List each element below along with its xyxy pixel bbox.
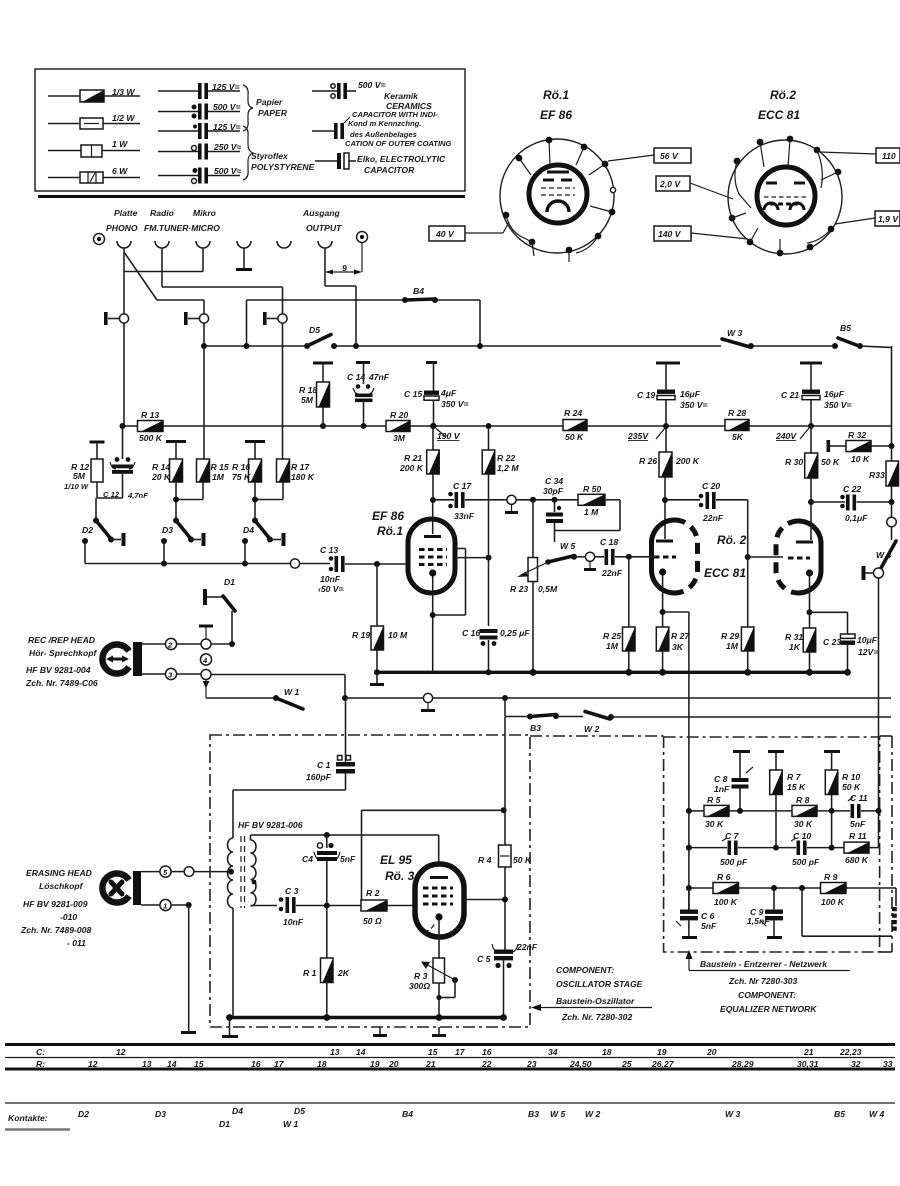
svg-text:Radio: Radio bbox=[150, 208, 174, 218]
svg-text:6 W: 6 W bbox=[112, 166, 128, 176]
svg-text:15: 15 bbox=[194, 1059, 204, 1069]
svg-text:Kontakte:: Kontakte: bbox=[8, 1113, 48, 1123]
svg-text:100 K: 100 K bbox=[821, 897, 845, 907]
svg-text:OUTPUT: OUTPUT bbox=[306, 223, 342, 233]
svg-text:C4: C4 bbox=[302, 854, 313, 864]
svg-text:R 1: R 1 bbox=[303, 968, 317, 978]
svg-text:22: 22 bbox=[481, 1059, 492, 1069]
svg-text:EF 86: EF 86 bbox=[372, 509, 404, 523]
svg-text:R 16: R 16 bbox=[232, 462, 250, 472]
svg-text:D4: D4 bbox=[232, 1106, 243, 1116]
svg-text:16: 16 bbox=[482, 1047, 492, 1057]
svg-text:140 V: 140 V bbox=[658, 229, 682, 239]
svg-text:C 15: C 15 bbox=[404, 389, 422, 399]
svg-text:OSCILLATOR STAGE: OSCILLATOR STAGE bbox=[556, 979, 643, 989]
svg-text:B4: B4 bbox=[402, 1109, 413, 1119]
svg-text:R 28: R 28 bbox=[728, 408, 746, 418]
svg-text:C 22: C 22 bbox=[843, 484, 861, 494]
svg-text:C 16: C 16 bbox=[462, 628, 480, 638]
svg-text:C 14: C 14 bbox=[347, 372, 365, 382]
svg-text:23: 23 bbox=[526, 1059, 537, 1069]
svg-text:22nF: 22nF bbox=[702, 513, 724, 523]
svg-text:C 1: C 1 bbox=[317, 760, 331, 770]
svg-text:20: 20 bbox=[388, 1059, 399, 1069]
svg-text:C:: C: bbox=[36, 1047, 45, 1057]
svg-text:1K: 1K bbox=[789, 642, 801, 652]
svg-text:250 V≈: 250 V≈ bbox=[213, 142, 241, 152]
svg-text:CAPACITOR: CAPACITOR bbox=[364, 165, 415, 175]
svg-text:Löschkopf: Löschkopf bbox=[39, 881, 84, 891]
svg-text:33: 33 bbox=[883, 1059, 893, 1069]
svg-text:0,5M: 0,5M bbox=[538, 584, 558, 594]
svg-text:COMPONENT:: COMPONENT: bbox=[738, 990, 796, 1000]
svg-text:C 34: C 34 bbox=[545, 476, 563, 486]
svg-text:R 10: R 10 bbox=[842, 772, 860, 782]
svg-text:C 10: C 10 bbox=[793, 831, 811, 841]
svg-text:1 M: 1 M bbox=[584, 507, 599, 517]
svg-text:235V: 235V bbox=[627, 431, 649, 441]
svg-text:Rö.1: Rö.1 bbox=[543, 88, 569, 102]
svg-text:16μF: 16μF bbox=[824, 389, 845, 399]
svg-text:12V=: 12V= bbox=[858, 647, 878, 657]
svg-text:33nF: 33nF bbox=[454, 511, 475, 521]
svg-text:500 pF: 500 pF bbox=[720, 857, 748, 867]
svg-text:50 K: 50 K bbox=[821, 457, 840, 467]
svg-text:125 V=: 125 V= bbox=[212, 82, 239, 92]
svg-text:10nF: 10nF bbox=[283, 917, 304, 927]
svg-text:W 1: W 1 bbox=[284, 687, 299, 697]
svg-text:16μF: 16μF bbox=[680, 389, 701, 399]
svg-text:15: 15 bbox=[428, 1047, 438, 1057]
svg-text:C 12: C 12 bbox=[103, 490, 120, 499]
svg-text:110: 110 bbox=[882, 151, 896, 161]
svg-text:Mikro: Mikro bbox=[193, 208, 216, 218]
svg-text:680 K: 680 K bbox=[845, 855, 869, 865]
svg-text:180 K: 180 K bbox=[291, 472, 315, 482]
svg-text:R33: R33 bbox=[869, 470, 885, 480]
svg-text:5M: 5M bbox=[73, 471, 86, 481]
svg-text:75 K: 75 K bbox=[232, 472, 251, 482]
svg-text:21: 21 bbox=[803, 1047, 814, 1057]
svg-text:C 5: C 5 bbox=[477, 954, 491, 964]
svg-text:R 7: R 7 bbox=[787, 772, 802, 782]
svg-text:R 32: R 32 bbox=[848, 430, 866, 440]
svg-text:R 8: R 8 bbox=[796, 795, 810, 805]
svg-text:3K: 3K bbox=[672, 642, 684, 652]
svg-text:4,7nF: 4,7nF bbox=[127, 491, 148, 500]
svg-text:D5: D5 bbox=[294, 1106, 305, 1116]
svg-text:5M: 5M bbox=[301, 395, 314, 405]
svg-text:HF BV 9281-004: HF BV 9281-004 bbox=[26, 665, 91, 675]
svg-text:18: 18 bbox=[317, 1059, 327, 1069]
svg-text:W 4: W 4 bbox=[876, 550, 891, 560]
svg-text:D1: D1 bbox=[219, 1119, 230, 1129]
svg-text:D1: D1 bbox=[224, 577, 235, 587]
svg-text:ECC 81: ECC 81 bbox=[704, 566, 746, 580]
svg-text:B4: B4 bbox=[413, 286, 424, 296]
svg-text:W 2: W 2 bbox=[584, 724, 599, 734]
svg-text:5nF: 5nF bbox=[701, 921, 717, 931]
svg-text:R 4: R 4 bbox=[478, 855, 492, 865]
svg-text:50 K: 50 K bbox=[565, 432, 584, 442]
svg-text:W 1: W 1 bbox=[283, 1119, 298, 1129]
svg-text:2: 2 bbox=[167, 641, 173, 650]
svg-text:1M: 1M bbox=[606, 641, 619, 651]
svg-text:COMPONENT:: COMPONENT: bbox=[556, 965, 614, 975]
svg-text:R 29: R 29 bbox=[721, 631, 739, 641]
svg-text:1M: 1M bbox=[212, 472, 225, 482]
svg-text:350 V=: 350 V= bbox=[441, 399, 468, 409]
svg-text:des Außenbelages: des Außenbelages bbox=[350, 130, 417, 139]
svg-text:B3: B3 bbox=[530, 723, 541, 733]
svg-text:R 50: R 50 bbox=[583, 484, 601, 494]
svg-text:R 5: R 5 bbox=[707, 795, 721, 805]
svg-text:R 24: R 24 bbox=[564, 408, 582, 418]
svg-text:Rö. 3: Rö. 3 bbox=[385, 869, 415, 883]
svg-text:1/10 W: 1/10 W bbox=[64, 482, 89, 491]
svg-text:R 21: R 21 bbox=[404, 453, 422, 463]
svg-text:Rö. 2: Rö. 2 bbox=[717, 533, 747, 547]
svg-text:C 21: C 21 bbox=[781, 390, 799, 400]
svg-text:56 V: 56 V bbox=[660, 151, 679, 161]
svg-text:47nF: 47nF bbox=[368, 372, 390, 382]
svg-text:30pF: 30pF bbox=[543, 486, 564, 496]
svg-text:R 14: R 14 bbox=[152, 462, 170, 472]
svg-text:W 5: W 5 bbox=[560, 541, 575, 551]
svg-text:D5: D5 bbox=[309, 325, 320, 335]
svg-text:1,5nF: 1,5nF bbox=[747, 916, 770, 926]
svg-text:POLYSTYRENE: POLYSTYRENE bbox=[251, 162, 315, 172]
svg-text:Kond m Kennzchng.: Kond m Kennzchng. bbox=[348, 119, 421, 128]
svg-text:13: 13 bbox=[330, 1047, 340, 1057]
svg-text:FM.TUNER·MICRO: FM.TUNER·MICRO bbox=[144, 223, 220, 233]
svg-text:R:: R: bbox=[36, 1059, 45, 1069]
svg-text:Rö.1: Rö.1 bbox=[377, 524, 403, 538]
svg-text:HF BV 9281-006: HF BV 9281-006 bbox=[238, 820, 303, 830]
svg-text:50 K: 50 K bbox=[513, 855, 532, 865]
svg-text:Ausgang: Ausgang bbox=[302, 208, 341, 218]
svg-text:14: 14 bbox=[356, 1047, 366, 1057]
svg-text:1: 1 bbox=[163, 902, 167, 911]
svg-text:R 22: R 22 bbox=[497, 453, 515, 463]
svg-text:D3: D3 bbox=[162, 525, 173, 535]
svg-text:350 V=: 350 V= bbox=[680, 400, 707, 410]
svg-text:R 23: R 23 bbox=[510, 584, 528, 594]
svg-text:5nF: 5nF bbox=[850, 819, 866, 829]
svg-text:19: 19 bbox=[657, 1047, 667, 1057]
svg-text:1,2 M: 1,2 M bbox=[497, 463, 519, 473]
svg-text:12: 12 bbox=[88, 1059, 98, 1069]
svg-text:ERASING HEAD: ERASING HEAD bbox=[26, 868, 92, 878]
svg-text:350 V=: 350 V= bbox=[824, 400, 851, 410]
svg-text:D4: D4 bbox=[243, 525, 254, 535]
svg-text:16: 16 bbox=[251, 1059, 261, 1069]
svg-text:18: 18 bbox=[602, 1047, 612, 1057]
svg-text:‹50 V=: ‹50 V= bbox=[318, 584, 344, 594]
svg-text:ECC 81: ECC 81 bbox=[758, 108, 800, 122]
svg-text:R 27: R 27 bbox=[671, 631, 690, 641]
svg-text:Platte: Platte bbox=[114, 208, 138, 218]
svg-text:1M: 1M bbox=[726, 641, 739, 651]
svg-text:125 V=: 125 V= bbox=[213, 122, 240, 132]
svg-text:B5: B5 bbox=[834, 1109, 845, 1119]
svg-text:1/2 W: 1/2 W bbox=[112, 113, 135, 123]
svg-text:17: 17 bbox=[274, 1059, 285, 1069]
svg-text:14: 14 bbox=[167, 1059, 177, 1069]
svg-text:R 11: R 11 bbox=[849, 831, 867, 841]
svg-text:20 K: 20 K bbox=[151, 472, 171, 482]
svg-text:4: 4 bbox=[202, 656, 208, 665]
svg-text:1nF: 1nF bbox=[714, 784, 730, 794]
svg-text:30,31: 30,31 bbox=[797, 1059, 819, 1069]
svg-text:C 23: C 23 bbox=[823, 637, 841, 647]
svg-text:19: 19 bbox=[370, 1059, 380, 1069]
svg-text:W 4: W 4 bbox=[869, 1109, 884, 1119]
svg-text:R 9: R 9 bbox=[824, 872, 838, 882]
svg-text:12: 12 bbox=[116, 1047, 126, 1057]
svg-text:C 6: C 6 bbox=[701, 911, 715, 921]
svg-text:REC /REP HEAD: REC /REP HEAD bbox=[28, 635, 95, 645]
svg-text:PAPER: PAPER bbox=[258, 108, 288, 118]
svg-text:R 13: R 13 bbox=[141, 410, 159, 420]
svg-text:240V: 240V bbox=[775, 431, 797, 441]
svg-text:0,1μF: 0,1μF bbox=[845, 513, 868, 523]
svg-text:C 19: C 19 bbox=[637, 390, 655, 400]
svg-text:Baustein-Oszillator: Baustein-Oszillator bbox=[556, 996, 635, 1006]
svg-text:100 K: 100 K bbox=[714, 897, 738, 907]
svg-text:Baustein - Entzerrer - Netzwer: Baustein - Entzerrer - Netzwerk bbox=[700, 959, 828, 969]
svg-text:26,27: 26,27 bbox=[651, 1059, 675, 1069]
svg-text:PHONO: PHONO bbox=[106, 223, 138, 233]
svg-text:3M: 3M bbox=[393, 433, 406, 443]
svg-text:30 K: 30 K bbox=[705, 819, 724, 829]
svg-text:1 W: 1 W bbox=[112, 139, 128, 149]
svg-text:Elko, ELECTROLYTIC: Elko, ELECTROLYTIC bbox=[357, 154, 446, 164]
svg-text:Zch. Nr. 7489-C06: Zch. Nr. 7489-C06 bbox=[25, 678, 98, 688]
svg-text:34: 34 bbox=[548, 1047, 558, 1057]
svg-text:1/3 W: 1/3 W bbox=[112, 87, 135, 97]
svg-text:Zch. Nr 7280-303: Zch. Nr 7280-303 bbox=[728, 976, 798, 986]
svg-text:C 18: C 18 bbox=[600, 537, 618, 547]
svg-text:200 K: 200 K bbox=[399, 463, 424, 473]
svg-text:Papier: Papier bbox=[256, 97, 283, 107]
svg-text:C 20: C 20 bbox=[702, 481, 720, 491]
svg-text:28,29: 28,29 bbox=[731, 1059, 754, 1069]
svg-text:Zch. Nr. 7280-302: Zch. Nr. 7280-302 bbox=[561, 1012, 632, 1022]
svg-text:50 Ω: 50 Ω bbox=[363, 916, 382, 926]
svg-text:R 30: R 30 bbox=[785, 457, 803, 467]
svg-text:EF 86: EF 86 bbox=[540, 108, 572, 122]
svg-text:30 K: 30 K bbox=[794, 819, 813, 829]
svg-text:W 3: W 3 bbox=[727, 328, 742, 338]
svg-text:Hör- Sprechkopf: Hör- Sprechkopf bbox=[29, 648, 97, 658]
svg-text:22nF: 22nF bbox=[516, 942, 538, 952]
svg-text:10 K: 10 K bbox=[851, 454, 870, 464]
svg-text:13: 13 bbox=[142, 1059, 152, 1069]
svg-text:R 19: R 19 bbox=[352, 630, 370, 640]
svg-text:25: 25 bbox=[621, 1059, 632, 1069]
svg-text:50 K: 50 K bbox=[842, 782, 861, 792]
svg-text:22nF: 22nF bbox=[601, 568, 623, 578]
svg-text:EL 95: EL 95 bbox=[380, 853, 412, 867]
svg-text:15 K: 15 K bbox=[787, 782, 806, 792]
svg-text:C 8: C 8 bbox=[714, 774, 728, 784]
svg-text:W 3: W 3 bbox=[725, 1109, 740, 1119]
svg-text:500 V=: 500 V= bbox=[213, 102, 240, 112]
svg-text:10μF: 10μF bbox=[857, 635, 878, 645]
svg-text:-010: -010 bbox=[60, 912, 77, 922]
svg-text:5nF: 5nF bbox=[340, 854, 356, 864]
svg-text:200 K: 200 K bbox=[675, 456, 700, 466]
svg-text:- 011: - 011 bbox=[67, 938, 86, 948]
svg-text:2,0 V: 2,0 V bbox=[659, 179, 681, 189]
svg-text:D2: D2 bbox=[82, 525, 93, 535]
svg-text:EQUALIZER NETWORK: EQUALIZER NETWORK bbox=[720, 1004, 817, 1014]
svg-text:CATION OF OUTER COATING: CATION OF OUTER COATING bbox=[345, 139, 452, 148]
svg-text:B5: B5 bbox=[840, 323, 851, 333]
svg-text:W 2: W 2 bbox=[585, 1109, 600, 1119]
svg-text:Styroflex: Styroflex bbox=[251, 151, 289, 161]
svg-text:R 25: R 25 bbox=[603, 631, 621, 641]
svg-text:R 3: R 3 bbox=[414, 971, 428, 981]
svg-text:2K: 2K bbox=[337, 968, 350, 978]
svg-text:300Ω: 300Ω bbox=[409, 981, 430, 991]
svg-text:17: 17 bbox=[455, 1047, 466, 1057]
svg-text:C 17: C 17 bbox=[453, 481, 472, 491]
svg-text:40 V: 40 V bbox=[435, 229, 455, 239]
svg-text:21: 21 bbox=[425, 1059, 436, 1069]
svg-text:W 5: W 5 bbox=[550, 1109, 565, 1119]
svg-text:500 V≈: 500 V≈ bbox=[214, 166, 241, 176]
svg-text:10 M: 10 M bbox=[388, 630, 408, 640]
svg-text:R 20: R 20 bbox=[390, 410, 408, 420]
svg-text:R 31: R 31 bbox=[785, 632, 803, 642]
svg-text:500 pF: 500 pF bbox=[792, 857, 820, 867]
svg-text:C 13: C 13 bbox=[320, 545, 338, 555]
svg-text:5K: 5K bbox=[732, 432, 744, 442]
svg-text:R 17: R 17 bbox=[291, 462, 310, 472]
svg-text:Zch. Nr. 7489-008: Zch. Nr. 7489-008 bbox=[20, 925, 91, 935]
svg-text:D3: D3 bbox=[155, 1109, 166, 1119]
svg-text:CAPACITOR WITH INDI-: CAPACITOR WITH INDI- bbox=[352, 110, 438, 119]
svg-text:500 K: 500 K bbox=[139, 433, 163, 443]
svg-text:HF BV 9281-009: HF BV 9281-009 bbox=[23, 899, 88, 909]
svg-text:32: 32 bbox=[851, 1059, 861, 1069]
svg-text:Keramik: Keramik bbox=[384, 91, 419, 101]
svg-text:Rö.2: Rö.2 bbox=[770, 88, 796, 102]
svg-text:C 11: C 11 bbox=[850, 793, 868, 803]
svg-text:24,50: 24,50 bbox=[569, 1059, 592, 1069]
svg-text:R 18: R 18 bbox=[299, 385, 317, 395]
svg-text:R 2: R 2 bbox=[366, 888, 380, 898]
svg-text:0,25 μF: 0,25 μF bbox=[500, 628, 530, 638]
svg-text:C 7: C 7 bbox=[725, 831, 740, 841]
svg-text:22,23: 22,23 bbox=[839, 1047, 862, 1057]
svg-text:1,9 V: 1,9 V bbox=[878, 214, 899, 224]
svg-text:R 26: R 26 bbox=[639, 456, 657, 466]
svg-text:20: 20 bbox=[706, 1047, 717, 1057]
svg-text:R 15: R 15 bbox=[211, 462, 229, 472]
svg-text:R 6: R 6 bbox=[717, 872, 731, 882]
svg-text:D2: D2 bbox=[78, 1109, 89, 1119]
svg-text:4μF: 4μF bbox=[440, 388, 457, 398]
svg-text:B3: B3 bbox=[528, 1109, 539, 1119]
svg-text:500 V=: 500 V= bbox=[358, 80, 385, 90]
svg-text:9: 9 bbox=[342, 263, 347, 273]
svg-text:10nF: 10nF bbox=[320, 574, 341, 584]
svg-text:160pF: 160pF bbox=[306, 772, 332, 782]
svg-text:C 3: C 3 bbox=[285, 886, 299, 896]
